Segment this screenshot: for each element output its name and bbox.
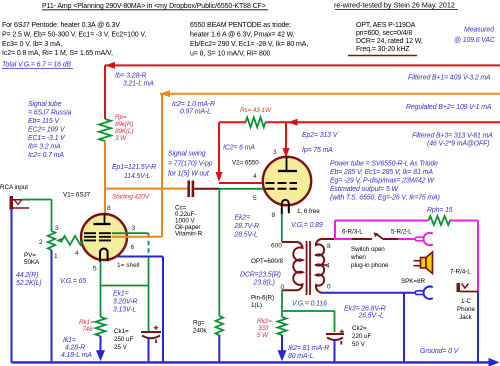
wire OPT bottom bbox=[281, 290, 283, 311]
svg-text:Ep2= 313 V: Ep2= 313 V bbox=[302, 132, 339, 139]
OPT tap labels bbox=[271, 243, 331, 292]
svg-text:7-R/4-L: 7-R/4-L bbox=[450, 269, 471, 276]
svg-text:OPT=600/8: OPT=600/8 bbox=[251, 258, 283, 265]
label Ek1 bbox=[113, 291, 137, 314]
svg-text:(46 V-2*9 mA@OFF): (46 V-2*9 mA@OFF) bbox=[427, 141, 489, 148]
svg-text:Rg=: Rg= bbox=[193, 320, 205, 327]
svg-text:4.18-L mA: 4.18-L mA bbox=[61, 352, 92, 359]
svg-text:Ik1=: Ik1= bbox=[63, 337, 76, 344]
wire Rp bottom to plate bbox=[104, 141, 106, 214]
label Ck2 bbox=[352, 325, 372, 348]
label V1 bbox=[63, 192, 91, 199]
wire shell bbox=[117, 257, 164, 363]
label Ck1 bbox=[114, 328, 134, 351]
svg-text:4: 4 bbox=[253, 173, 257, 180]
label Rph bbox=[427, 207, 453, 214]
label SPK bbox=[401, 278, 426, 285]
svg-text:EC1= -3.1 V: EC1= -3.1 V bbox=[28, 135, 66, 142]
wire jack ground bbox=[477, 292, 479, 363]
svg-text:4: 4 bbox=[326, 263, 330, 270]
V1 grids bbox=[84, 233, 113, 240]
svg-text:50KA: 50KA bbox=[24, 259, 40, 266]
svg-text:3.20V-R: 3.20V-R bbox=[113, 299, 137, 306]
svg-text:4: 4 bbox=[75, 250, 79, 257]
svg-text:114.5V-L: 114.5V-L bbox=[124, 173, 151, 180]
svg-text:250 uF: 250 uF bbox=[114, 336, 134, 343]
svg-text:Filtered B+3= 313 V-81 mA: Filtered B+3= 313 V-81 mA bbox=[412, 133, 493, 140]
svg-text:Starting 420V: Starting 420V bbox=[112, 194, 150, 201]
svg-text:Ep1=121.5V-R: Ep1=121.5V-R bbox=[112, 164, 156, 171]
svg-text:heater 1.6 A @ 6.3V, Pmax= 42: heater 1.6 A @ 6.3V, Pmax= 42 W, bbox=[190, 32, 295, 39]
V1 pin labels bbox=[75, 205, 136, 273]
svg-text:748: 748 bbox=[82, 326, 93, 333]
wire input ground bbox=[11, 209, 13, 363]
svg-text:6-R/3-L: 6-R/3-L bbox=[342, 229, 363, 236]
svg-text:V2= 6550: V2= 6550 bbox=[232, 160, 259, 167]
wire PV bottom bbox=[51, 250, 53, 363]
svg-text:Ground= 0 V: Ground= 0 V bbox=[420, 348, 460, 355]
label V2 bbox=[232, 160, 259, 167]
svg-text:6550 BEAM PENTODE as triode:: 6550 BEAM PENTODE as triode: bbox=[190, 22, 291, 29]
svg-text:Ib= 3.2 mA: Ib= 3.2 mA bbox=[28, 144, 61, 151]
resistor Rph bbox=[429, 216, 451, 225]
switch lever arrowhead bbox=[374, 232, 379, 237]
resistor Rs bbox=[246, 117, 266, 127]
svg-text:Ek1=: Ek1= bbox=[113, 291, 129, 298]
OPT core bbox=[307, 241, 310, 295]
svg-text:0: 0 bbox=[281, 284, 285, 291]
wire B+2 rail bbox=[160, 90, 500, 97]
wire Ck1 ground bbox=[148, 338, 150, 363]
svg-text:Power tube = SV6550-R-L As Tri: Power tube = SV6550-R-L As Triode bbox=[330, 161, 438, 168]
svg-text:0: 0 bbox=[327, 284, 331, 291]
label Ic2 bbox=[172, 101, 215, 116]
svg-text:28.7V-R: 28.7V-R bbox=[234, 223, 259, 230]
date note bbox=[334, 1, 458, 10]
separator line bbox=[348, 55, 417, 57]
label OPT bbox=[251, 258, 283, 265]
svg-text:5-R/2-L: 5-R/2-L bbox=[391, 229, 412, 236]
svg-text:Ip= 75 mA: Ip= 75 mA bbox=[302, 147, 333, 154]
svg-text:Total V.G.= 6.7 = 16 dB: Total V.G.= 6.7 = 16 dB bbox=[2, 62, 71, 69]
svg-text:1: 1 bbox=[54, 253, 58, 260]
svg-text:25 V: 25 V bbox=[114, 344, 128, 351]
svg-text:6: 6 bbox=[131, 244, 135, 251]
label Ik1 bbox=[61, 337, 92, 359]
svg-text:Ic2= 1.0 mA-R: Ic2= 1.0 mA-R bbox=[172, 101, 215, 108]
label pin6 bbox=[251, 295, 274, 310]
label 16free bbox=[297, 208, 320, 215]
svg-text:= 77(170) V-pp: = 77(170) V-pp bbox=[168, 161, 213, 168]
svg-text:Eg= -29 V, P-disp/max= 23W/42: Eg= -29 V, P-disp/max= 23W/42 W bbox=[330, 178, 435, 185]
svg-text:89K(L): 89K(L) bbox=[115, 128, 133, 135]
svg-text:Ik2= 81 mA-R: Ik2= 81 mA-R bbox=[288, 345, 329, 352]
svg-text:0.97 mA-L: 0.97 mA-L bbox=[180, 109, 211, 116]
label Ek2 bbox=[234, 215, 259, 239]
title text bbox=[42, 3, 268, 10]
V2 cathode bbox=[282, 200, 289, 214]
svg-text:for 1(5) W out: for 1(5) W out bbox=[168, 171, 210, 178]
svg-text:Ec3= 0 V, Ib= 3 mA,: Ec3= 0 V, Ib= 3 mA, bbox=[2, 41, 62, 48]
measured note bbox=[454, 27, 496, 45]
svg-text:Rk2=: Rk2= bbox=[257, 318, 272, 325]
wire Rk1 to ground bbox=[96, 336, 105, 361]
svg-text:V.G.= 65: V.G.= 65 bbox=[60, 278, 86, 285]
svg-text:IC2= 6 mA: IC2= 6 mA bbox=[223, 145, 255, 152]
V2 plate bbox=[278, 158, 297, 171]
svg-text:V1= 6SJ7: V1= 6SJ7 bbox=[63, 192, 91, 199]
svg-text:Ek3= 26.8V-R: Ek3= 26.8V-R bbox=[344, 306, 386, 313]
label Rk2 bbox=[257, 318, 272, 339]
label Rk1 bbox=[79, 319, 94, 333]
label PV bbox=[24, 252, 40, 266]
svg-text:1-C: 1-C bbox=[461, 298, 471, 305]
wire grid V2 bbox=[219, 188, 266, 190]
label ground bbox=[420, 348, 460, 355]
label VG0116 bbox=[292, 301, 327, 308]
V2 grids bbox=[266, 183, 298, 189]
wire plate node to Cc bbox=[105, 188, 187, 190]
svg-text:Signal swing: Signal swing bbox=[168, 151, 206, 158]
svg-text:Ic2= 0.7 mA: Ic2= 0.7 mA bbox=[28, 152, 64, 159]
svg-text:Ck2=: Ck2= bbox=[352, 325, 367, 332]
svg-text:P= 2.5 W, Eb= 50-300 V, Ec1= -: P= 2.5 W, Eb= 50-300 V, Ec1= -3 V, Ec2=1… bbox=[2, 32, 146, 39]
svg-text:Freq.= 30-20 kHZ: Freq.= 30-20 kHZ bbox=[356, 46, 410, 53]
label VG65 bbox=[60, 278, 86, 285]
V2 pin labels bbox=[253, 149, 277, 219]
phone plug upper bbox=[416, 233, 433, 245]
svg-text:SPK=8R: SPK=8R bbox=[401, 278, 426, 285]
label VG089 bbox=[291, 222, 323, 229]
PV wiper bbox=[56, 236, 83, 245]
svg-text:Ck1=: Ck1= bbox=[114, 328, 129, 335]
phone jack bbox=[457, 283, 479, 292]
svg-text:Regulated B+2= 109 V-1 mA: Regulated B+2= 109 V-1 mA bbox=[406, 104, 492, 111]
svg-text:PV=: PV= bbox=[24, 252, 36, 259]
svg-text:240k: 240k bbox=[193, 328, 207, 335]
label OPT DCR bbox=[240, 272, 281, 287]
svg-text:80 mA-L: 80 mA-L bbox=[288, 353, 314, 360]
svg-text:pri=600, sec=0/4/8: pri=600, sec=0/4/8 bbox=[356, 30, 412, 37]
svg-text:Eb= 115 V: Eb= 115 V bbox=[28, 118, 60, 125]
svg-text:Switch open: Switch open bbox=[351, 246, 385, 253]
svg-text:3: 3 bbox=[132, 225, 136, 232]
wire to Rk2 bbox=[281, 311, 283, 317]
svg-text:89k(R): 89k(R) bbox=[115, 121, 133, 128]
svg-text:8: 8 bbox=[107, 205, 111, 212]
svg-text:DCR= 24, rated 12 W,: DCR= 24, rated 12 W, bbox=[356, 38, 423, 45]
wire cathode branch bbox=[101, 285, 149, 287]
svg-text:V.G.= 0.116: V.G.= 0.116 bbox=[292, 301, 327, 308]
svg-text:plug-in phone: plug-in phone bbox=[351, 262, 389, 269]
svg-text:2: 2 bbox=[39, 239, 43, 246]
label B+2 bbox=[406, 104, 492, 111]
potentiometer PV bbox=[48, 231, 55, 250]
svg-text:Filtered B+1= 409 V-3.2 mA: Filtered B+1= 409 V-3.2 mA bbox=[408, 75, 491, 82]
svg-text:5 W: 5 W bbox=[257, 332, 269, 339]
wire plate V2 bbox=[283, 122, 290, 158]
label Rg bbox=[193, 320, 207, 335]
svg-text:u= 8, S= 10 mA/V, Ri= 800: u= 8, S= 10 mA/V, Ri= 800 bbox=[190, 51, 271, 58]
svg-text:5: 5 bbox=[93, 266, 97, 273]
svg-text:P11- Amp <Planning 290V-80MA>: P11- Amp <Planning 290V-80MA> in <my Dro… bbox=[42, 3, 266, 10]
svg-text:@ 109.6 VAC: @ 109.6 VAC bbox=[454, 37, 496, 44]
switch labels bbox=[342, 229, 412, 236]
label Ep2 bbox=[302, 132, 339, 154]
6550 data block bbox=[190, 22, 308, 58]
label starting voltage bbox=[112, 194, 150, 201]
svg-text:26.5V -L: 26.5V -L bbox=[358, 313, 385, 320]
svg-text:Rs= 43-1W: Rs= 43-1W bbox=[240, 107, 272, 114]
wire B+3 rail bbox=[219, 119, 500, 126]
label signal swing bbox=[168, 151, 213, 178]
svg-text:Ic2= 0.8 mA, Ri= 1 M, S= 1.65: Ic2= 0.8 mA, Ri= 1 M, S= 1.65 mA/V, bbox=[2, 50, 113, 57]
wire Rg ground bbox=[218, 335, 220, 363]
label switch note bbox=[350, 246, 389, 269]
svg-text:3: 3 bbox=[273, 149, 277, 156]
wire 0-tap line bbox=[323, 292, 415, 294]
svg-text:220 uF: 220 uF bbox=[352, 333, 372, 340]
wire screen bbox=[112, 94, 162, 237]
6SJ7 data block bbox=[2, 22, 146, 57]
wire input bbox=[22, 200, 52, 232]
svg-text:23.8(L): 23.8(L) bbox=[253, 280, 275, 287]
svg-text:28.5V-L: 28.5V-L bbox=[234, 232, 258, 239]
wire switch line bbox=[335, 234, 415, 239]
svg-text:Eb/Ec2= 290 V, Ec1= -28 V, Ik=: Eb/Ec2= 290 V, Ec1= -28 V, Ik= 80 mA, bbox=[190, 41, 308, 48]
ground rail bbox=[12, 358, 500, 366]
svg-text:V.G.= 0.89: V.G.= 0.89 bbox=[291, 222, 323, 229]
RCA connector bbox=[10, 196, 31, 210]
label Ib bbox=[115, 73, 154, 88]
capacitor Ck2 bbox=[326, 330, 344, 345]
svg-text:1= shell: 1= shell bbox=[117, 262, 140, 269]
OPT primary bbox=[282, 242, 303, 290]
wire B+1 rail bbox=[105, 62, 500, 69]
label Ik2 bbox=[288, 345, 329, 360]
svg-text:3.21-L mA: 3.21-L mA bbox=[123, 81, 154, 88]
label B+3 bbox=[412, 133, 493, 148]
svg-text:8: 8 bbox=[272, 212, 276, 219]
svg-text:600: 600 bbox=[271, 243, 282, 250]
svg-text:Ek2=: Ek2= bbox=[235, 215, 251, 222]
svg-text:Pin-6(R): Pin-6(R) bbox=[251, 295, 274, 302]
svg-text:re-wired-tested by Stein 26: re-wired-tested by Stein 26 May. 2012 bbox=[334, 1, 455, 10]
label IC2b bbox=[223, 145, 255, 152]
capacitor Ck1 bbox=[141, 326, 161, 344]
tube V2 envelope bbox=[263, 157, 311, 205]
label Ep1 bbox=[112, 164, 156, 180]
svg-text:Rp=: Rp= bbox=[115, 114, 127, 121]
svg-text:For 6SJ7 Pentode: heater 0.3A: For 6SJ7 Pentode: heater 0.3A @ 6.3V bbox=[2, 22, 120, 29]
svg-text:when: when bbox=[350, 254, 366, 261]
label B+1 bbox=[408, 75, 491, 82]
resistor Rg bbox=[216, 316, 223, 335]
svg-text:44.2(R): 44.2(R) bbox=[16, 272, 38, 279]
label phone jack bbox=[457, 298, 476, 321]
resistor Rp bbox=[99, 119, 111, 141]
label Cc bbox=[175, 205, 203, 238]
wire Rph line bbox=[335, 220, 478, 222]
speaker SPK bbox=[414, 252, 433, 274]
label signal tube bbox=[28, 101, 72, 159]
svg-text:Vitamin-R: Vitamin-R bbox=[175, 231, 203, 238]
svg-text:3.13V-L: 3.13V-L bbox=[113, 307, 136, 314]
svg-text:Eb= 285 V, Ec1= 285 V, Ik= 81: Eb= 285 V, Ec1= 285 V, Ik= 81 mA bbox=[330, 169, 433, 176]
PV pin labels bbox=[39, 225, 59, 260]
wire Rp top bbox=[104, 65, 106, 119]
label power tube bbox=[330, 161, 440, 202]
svg-text:(with T.S. 6550, Eg=-26 V, Ik=: (with T.S. 6550, Eg=-26 V, Ik=75 mA) bbox=[330, 195, 440, 202]
label RCA input bbox=[0, 184, 28, 191]
label Rs bbox=[240, 107, 272, 114]
svg-text:Rph= 15: Rph= 15 bbox=[427, 207, 453, 214]
wire Rg top bbox=[218, 189, 220, 316]
svg-text:5: 5 bbox=[253, 195, 257, 202]
V1 plate bbox=[94, 214, 111, 224]
wire 8-tap to switch bbox=[334, 221, 336, 240]
svg-text:3: 3 bbox=[55, 225, 59, 232]
svg-text:4.28-R: 4.28-R bbox=[65, 345, 85, 352]
svg-text:333: 333 bbox=[258, 325, 269, 332]
svg-text:Signal tube: Signal tube bbox=[28, 101, 62, 108]
phone plug lower bbox=[416, 287, 433, 299]
wire 0-tap ground bbox=[403, 293, 405, 363]
wire Rk2 ground bbox=[278, 335, 287, 361]
label Rp bbox=[115, 114, 133, 142]
svg-text:1, 6 free: 1, 6 free bbox=[297, 208, 320, 215]
OPT tap 4 stub bbox=[316, 264, 328, 266]
svg-text:52.2K(L): 52.2K(L) bbox=[16, 280, 42, 287]
svg-text:50 V: 50 V bbox=[352, 341, 366, 348]
svg-text:Ib= 3.28-R: Ib= 3.28-R bbox=[115, 73, 146, 80]
resistor Rk1 bbox=[96, 317, 106, 336]
wire screen tie bbox=[216, 122, 267, 183]
svg-text:RCA input: RCA input bbox=[0, 184, 28, 191]
resistor Rk2 bbox=[278, 317, 287, 335]
svg-text:8: 8 bbox=[327, 243, 331, 250]
label 7R4L bbox=[450, 269, 471, 276]
wire suppressor bbox=[112, 233, 149, 331]
label Ek3 bbox=[344, 306, 386, 320]
OPT secondary bbox=[316, 239, 335, 293]
total gain note bbox=[2, 62, 73, 69]
V1 cathode bbox=[100, 249, 108, 262]
wire to Ck2 bbox=[282, 311, 335, 332]
label shell bbox=[117, 262, 140, 269]
capacitor Cc bbox=[189, 181, 220, 198]
svg-text:3 W: 3 W bbox=[115, 135, 127, 142]
wire V2 cathode down bbox=[281, 214, 283, 242]
OPT data block bbox=[356, 22, 423, 53]
svg-text:Rk1=: Rk1= bbox=[79, 319, 94, 326]
tube V1 envelope bbox=[81, 214, 127, 260]
svg-text:Phone: Phone bbox=[457, 306, 476, 313]
svg-text:Measured: Measured bbox=[464, 27, 495, 34]
wire Ck2 ground bbox=[334, 339, 336, 363]
svg-text:= 6SJ7 Russia: = 6SJ7 Russia bbox=[28, 110, 72, 117]
wire Rph down bbox=[477, 221, 479, 292]
svg-text:OPT, AES P-119DA: OPT, AES P-119DA bbox=[356, 22, 416, 29]
svg-text:Jack: Jack bbox=[459, 314, 473, 321]
svg-text:EC2= 109 V: EC2= 109 V bbox=[28, 127, 66, 134]
svg-text:1(L): 1(L) bbox=[251, 302, 262, 309]
svg-text:DCR=23.5(R): DCR=23.5(R) bbox=[240, 272, 281, 279]
svg-text:Estimated output= 5 W: Estimated output= 5 W bbox=[330, 186, 399, 193]
label PV measured bbox=[16, 272, 42, 287]
wire cathode bbox=[100, 262, 102, 318]
